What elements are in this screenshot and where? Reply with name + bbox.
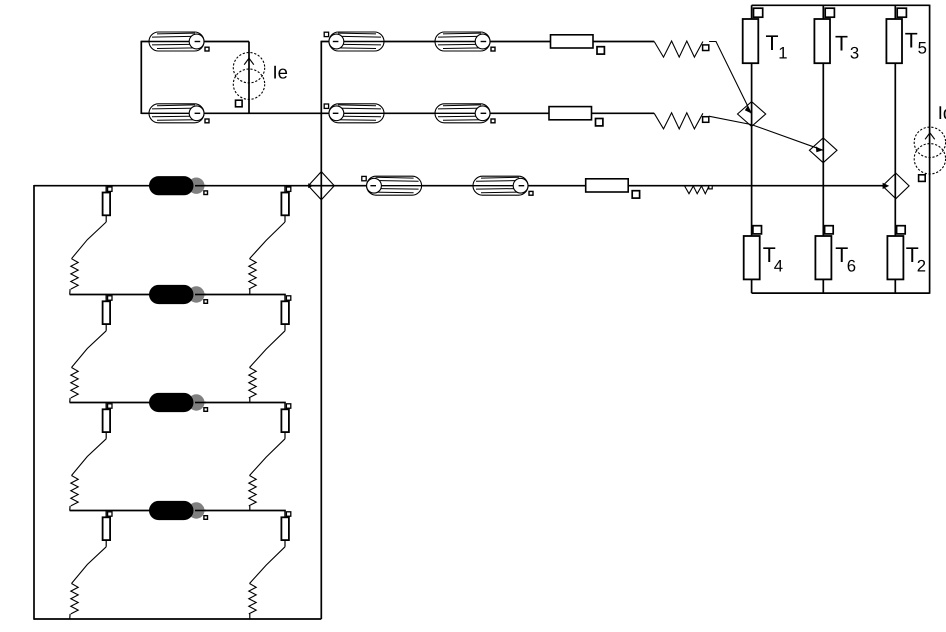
- wire diag left 3: [72, 439, 107, 476]
- wire bridge bottom rail: [752, 292, 930, 294]
- resistor RL4 left chain: [103, 511, 112, 547]
- svg-text:6: 6: [847, 256, 856, 275]
- ammeter A1 phase A: [738, 102, 766, 127]
- inductor spring SR4: [249, 584, 256, 614]
- label T4: [763, 243, 783, 276]
- inductor Lc1: [362, 176, 422, 195]
- label T1: [766, 31, 788, 63]
- wire diag right 1: [250, 222, 286, 259]
- inductor Lc2: [473, 176, 533, 195]
- label T2: [906, 243, 926, 276]
- inductor spring SL1: [71, 259, 78, 289]
- svg-text:T: T: [905, 29, 918, 53]
- wire spring tail left 4: [69, 614, 71, 619]
- label T5: [905, 29, 927, 58]
- wire bridge leg 3: [894, 5, 896, 293]
- inductor field winding L1: [149, 32, 209, 51]
- current source Id: [914, 102, 946, 181]
- inductor coil La3: [654, 41, 709, 57]
- wire top-left loop bottom / phase B start: [141, 112, 322, 114]
- wire ladder rung 4: [70, 510, 286, 512]
- wire phase C / rung 1 row: [34, 185, 883, 187]
- wire top-left loop top: [141, 41, 249, 43]
- thyristor T5: [886, 8, 906, 63]
- resistor RR3 right chain: [281, 403, 290, 439]
- wire diag right 4: [250, 547, 286, 584]
- wire spring tail left 1: [69, 289, 71, 294]
- arrow into ammeter A2: [816, 146, 823, 152]
- wire bridge right rail / Id shaft: [929, 5, 931, 294]
- wire ladder rung 3: [70, 402, 286, 404]
- arrow into ammeter A3: [883, 183, 890, 189]
- label T6: [835, 243, 856, 276]
- ammeter A0 stator node: [308, 172, 334, 200]
- wire diag right 2: [250, 331, 286, 368]
- wire ladder bottom rail: [34, 618, 321, 620]
- damper winding D2: [149, 285, 208, 304]
- inductor spring SL2: [71, 368, 78, 398]
- inductor coil Lc3: [685, 186, 713, 194]
- svg-text:5: 5: [918, 38, 927, 57]
- wire spring tail left 3: [69, 506, 71, 511]
- svg-text:4: 4: [774, 256, 783, 275]
- wire spring tail right 2: [249, 398, 251, 403]
- inductor field winding L2: [149, 104, 209, 123]
- wire diag left 1: [72, 222, 107, 259]
- thyristor T6: [815, 226, 833, 280]
- current source Ie: [233, 52, 288, 106]
- svg-text:Id: Id: [938, 102, 946, 123]
- inductor spring SR3: [249, 476, 256, 506]
- thyristor T2: [887, 226, 905, 280]
- inductor La1: [324, 32, 384, 51]
- wire diag left 2: [72, 331, 107, 368]
- inductor spring SR1: [249, 259, 256, 289]
- svg-text:2: 2: [917, 256, 926, 275]
- wire phase B row: [322, 112, 654, 114]
- resistor Ra: [551, 35, 605, 54]
- wire spring tail left 2: [69, 398, 71, 403]
- svg-text:1: 1: [778, 44, 787, 63]
- inductor spring SL4: [71, 584, 78, 614]
- wire phase A row: [321, 41, 654, 43]
- wire bridge top rail: [752, 4, 930, 6]
- wire phase B diagonal to bridge: [709, 116, 823, 150]
- thyristor T3: [814, 8, 834, 63]
- wire bridge leg 1: [751, 5, 753, 293]
- resistor Rb: [549, 107, 603, 126]
- ammeter A2 phase B: [809, 138, 837, 163]
- thyristor T4: [744, 226, 762, 280]
- wire stator rail vertical: [320, 41, 322, 619]
- damper winding D3: [149, 393, 208, 412]
- wire ladder left rail: [33, 185, 35, 620]
- wire diag left 4: [72, 547, 107, 584]
- wire spring tail right 1: [249, 289, 251, 294]
- wire ladder rung 2: [70, 294, 286, 296]
- wire phase A diagonal to bridge: [709, 42, 752, 115]
- wire bridge leg 2: [822, 5, 824, 293]
- resistor RL1 left chain: [103, 186, 112, 222]
- inductor spring SL3: [71, 476, 78, 506]
- resistor Rc: [586, 179, 640, 198]
- wire top-left loop left: [140, 41, 142, 114]
- resistor RL3 left chain: [103, 403, 112, 439]
- resistor RR1 right chain: [281, 186, 290, 222]
- resistor RR4 right chain: [281, 511, 290, 547]
- inductor Lb1: [324, 104, 384, 123]
- ammeter A3 phase C: [883, 173, 910, 199]
- thyristor T1: [743, 8, 763, 63]
- svg-text:3: 3: [850, 44, 859, 63]
- inductor spring SR2: [249, 368, 256, 398]
- inductor coil Lb3: [654, 113, 709, 129]
- svg-text:T: T: [835, 31, 848, 55]
- damper winding D1: [149, 176, 208, 195]
- inductor La2: [435, 32, 495, 51]
- wire Ie source shaft: [248, 42, 250, 114]
- resistor RL2 left chain: [103, 295, 112, 331]
- arrow into ammeter A0: [308, 183, 313, 188]
- wire spring tail right 3: [249, 506, 251, 511]
- label T3: [835, 31, 859, 62]
- arrow into ammeter A1: [745, 106, 752, 114]
- svg-text:Ie: Ie: [273, 62, 288, 83]
- resistor RR2 right chain: [281, 295, 290, 331]
- inductor Lb2: [435, 104, 495, 123]
- damper winding D4: [149, 501, 208, 520]
- svg-text:T: T: [766, 31, 779, 55]
- wire diag right 3: [250, 439, 286, 476]
- wire spring tail right 4: [249, 614, 251, 619]
